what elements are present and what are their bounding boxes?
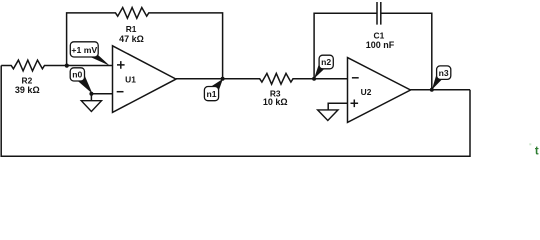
svg-text:47 kΩ: 47 kΩ xyxy=(119,34,144,44)
svg-text:100 nF: 100 nF xyxy=(366,40,395,50)
svg-text:R1: R1 xyxy=(126,24,137,34)
svg-text:+1 mV: +1 mV xyxy=(71,45,97,55)
svg-text:n1: n1 xyxy=(206,89,216,99)
svg-text:n3: n3 xyxy=(439,68,449,78)
svg-text:t: t xyxy=(535,145,539,157)
svg-text:R2: R2 xyxy=(22,75,33,85)
svg-text:U1: U1 xyxy=(125,75,136,85)
svg-text:U2: U2 xyxy=(361,87,372,97)
svg-text:n2: n2 xyxy=(321,57,331,67)
svg-text:n0: n0 xyxy=(72,70,82,80)
svg-text:39 kΩ: 39 kΩ xyxy=(15,85,40,95)
svg-text:10 kΩ: 10 kΩ xyxy=(263,97,288,107)
svg-text:C1: C1 xyxy=(374,30,385,40)
